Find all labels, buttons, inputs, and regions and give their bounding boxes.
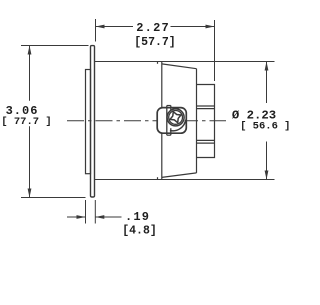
dimension 2.27: dimension line right segment xyxy=(171,26,215,28)
dimension 2.27: left arrowhead xyxy=(96,25,105,29)
latch boss (rounded square) xyxy=(157,108,186,134)
shell bottom edge / diameter extension line xyxy=(95,179,275,181)
dimension 3.06: bottom extension line xyxy=(21,197,86,199)
rear boot right edge xyxy=(196,69,198,173)
shell rear edge xyxy=(161,62,163,180)
screw head inner ring xyxy=(169,111,183,125)
step cylinder xyxy=(197,85,215,158)
shell top edge / diameter extension line xyxy=(95,61,275,63)
dimension 3.06: top arrowhead xyxy=(28,46,32,55)
latch lever arc xyxy=(170,120,186,131)
dimension .19: left extension line xyxy=(85,200,87,224)
dimension 3.06: top extension line xyxy=(21,45,89,47)
dimension 3.06: dimension line top segment xyxy=(29,46,31,101)
dimension 2.23: bottom arrowhead xyxy=(265,171,269,180)
gasket xyxy=(86,70,91,174)
flange xyxy=(91,46,95,197)
centerline xyxy=(67,120,226,122)
dimension 2.27: dimension line left segment xyxy=(96,26,134,28)
dimension 2.23: dimension line bottom segment xyxy=(266,142,268,180)
dimension 2.27: left extension line xyxy=(95,19,97,42)
screw head outer ring xyxy=(167,109,184,126)
dimension 2.23: top arrowhead xyxy=(265,62,269,71)
svg-text:[ 56.6 ]: [ 56.6 ] xyxy=(240,121,290,133)
svg-text:[4.8]: [4.8] xyxy=(122,224,157,237)
dimension 3.06: bottom arrowhead xyxy=(28,189,32,198)
shell groove tick bottom xyxy=(157,177,159,179)
shell groove tick top xyxy=(157,62,159,64)
dimension .19: right extension line xyxy=(94,200,96,224)
latch slider strip right line top xyxy=(170,106,172,111)
dimension .19: left arrowhead xyxy=(77,215,86,219)
step cylinder rib 4 xyxy=(197,142,215,144)
rear boot top edge xyxy=(162,64,197,69)
step cylinder rib 3 xyxy=(197,139,215,141)
step cylinder rib 2 xyxy=(197,108,215,110)
dimension .19: right arrowhead xyxy=(95,215,104,219)
rear boot bottom edge xyxy=(162,173,197,178)
dimension 2.23: dimension line top segment xyxy=(266,62,268,104)
step cylinder rib 1 xyxy=(197,105,215,107)
latch slider strip left line xyxy=(166,106,168,136)
svg-text:2.27: 2.27 xyxy=(136,21,170,35)
svg-text:.19: .19 xyxy=(125,210,150,224)
screw cross slot (star) xyxy=(170,112,181,123)
dimension .19: right arrow line xyxy=(95,216,121,218)
latch slider strip right line bottom xyxy=(170,128,172,135)
dimension 2.27: right extension line xyxy=(214,20,216,81)
dimension 2.27: right arrowhead xyxy=(206,25,215,29)
dimension .19: left arrow line xyxy=(67,216,86,218)
svg-text:[57.7]: [57.7] xyxy=(134,36,175,49)
svg-text:[ 77.7 ]: [ 77.7 ] xyxy=(1,116,51,128)
latch strip bottom cap xyxy=(167,134,171,136)
latch strip top cap xyxy=(167,105,171,107)
dimension 3.06: dimension line bottom segment xyxy=(29,126,31,197)
